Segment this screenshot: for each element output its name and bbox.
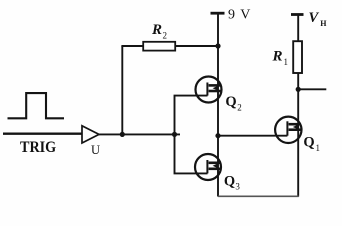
svg-text:3: 3	[235, 182, 240, 192]
svg-text:Q: Q	[224, 173, 235, 189]
svg-text:2: 2	[163, 31, 168, 41]
svg-text:R: R	[151, 22, 162, 38]
svg-text:1: 1	[284, 57, 289, 67]
svg-text:V: V	[309, 10, 320, 26]
svg-text:9: 9	[228, 8, 235, 23]
svg-text:V: V	[240, 8, 250, 23]
svg-text:Q: Q	[303, 134, 314, 150]
svg-text:R: R	[272, 49, 283, 65]
svg-text:1: 1	[316, 143, 321, 153]
svg-text:Q: Q	[225, 94, 236, 110]
svg-text:H: H	[320, 19, 327, 28]
svg-text:TRIG: TRIG	[20, 139, 57, 156]
svg-text:U: U	[91, 143, 100, 157]
svg-text:2: 2	[237, 103, 242, 113]
